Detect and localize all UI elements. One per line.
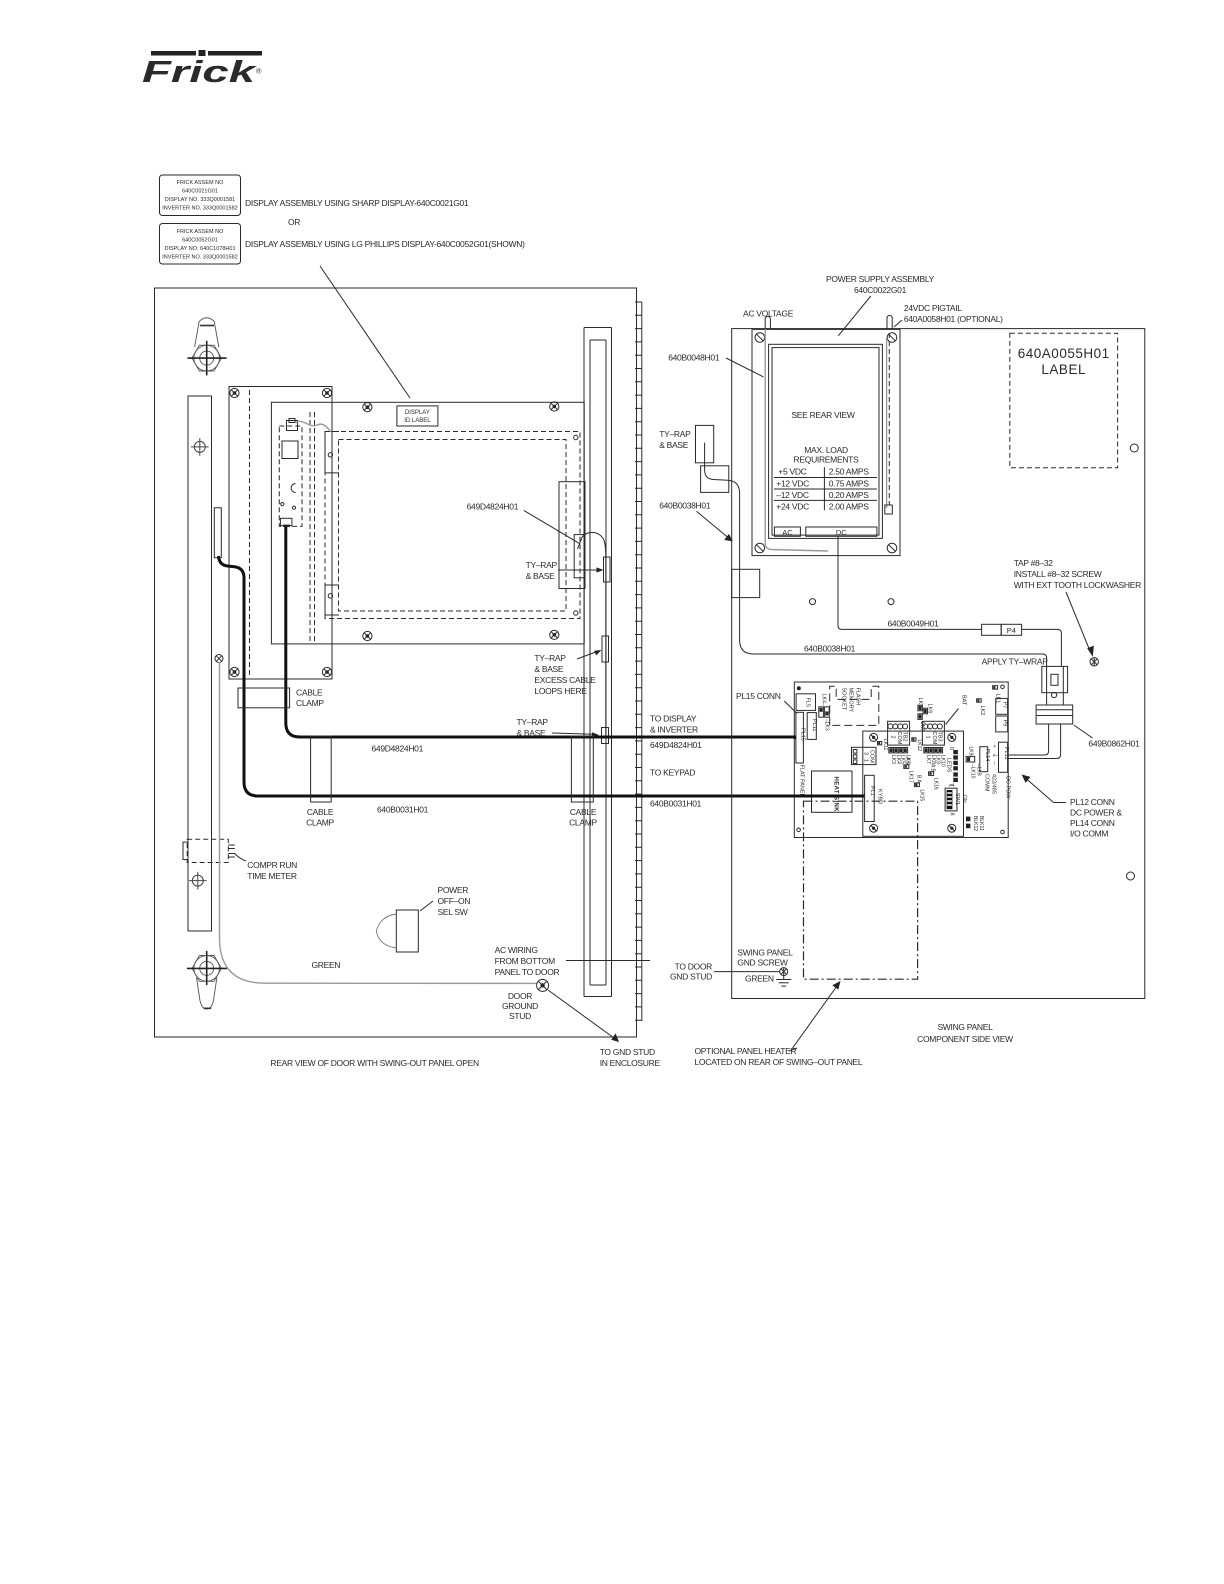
svg-text:COM: COM (931, 732, 937, 745)
hidden display edge dashed pair (309, 412, 311, 644)
svg-text:BLK11: BLK11 (978, 816, 984, 831)
svg-text:CLAMP: CLAMP (296, 698, 324, 708)
ty-rap base 1 on stiffener (604, 557, 611, 582)
svg-text:REAR VIEW OF DOOR WITH SWING-O: REAR VIEW OF DOOR WITH SWING-OUT PANEL O… (270, 1058, 479, 1068)
svg-text:2.50 AMPS: 2.50 AMPS (829, 467, 869, 477)
svg-text:ID LABEL: ID LABEL (404, 418, 431, 424)
stiffener bar (584, 328, 612, 997)
svg-text:+24 VDC: +24 VDC (776, 502, 809, 512)
svg-text:GREEN: GREEN (312, 960, 341, 970)
heat sink (812, 771, 853, 812)
svg-text:1: 1 (925, 736, 931, 739)
svg-text:PL12: PL12 (1003, 747, 1009, 760)
svg-text:P9: P9 (1002, 720, 1008, 727)
svg-text:LOCATED ON REAR OF SWING–OUT P: LOCATED ON REAR OF SWING–OUT PANEL (695, 1057, 863, 1067)
swing panel outline (732, 329, 1145, 999)
640B0038H01 wire through bases (705, 443, 1047, 667)
ty-rap base block lower (701, 466, 729, 493)
svg-text:FRICK ASSEM NO: FRICK ASSEM NO (177, 180, 224, 186)
tie base on plate edge (214, 508, 221, 558)
LED bank (946, 747, 958, 786)
svg-text:LK16: LK16 (933, 778, 939, 790)
svg-text:FROM BOTTOM: FROM BOTTOM (495, 956, 556, 966)
svg-text:SEL SW: SEL SW (438, 907, 468, 917)
jumper LK17 (904, 757, 914, 783)
display opening dashed outer (325, 432, 580, 619)
svg-text:GROUND: GROUND (502, 1001, 538, 1011)
jumper cluster LK5 LK6 LK7 (917, 698, 933, 732)
svg-text:TY–RAP: TY–RAP (534, 653, 566, 663)
svg-text:640C0052G01: 640C0052G01 (182, 238, 218, 244)
connector PL15 (796, 712, 804, 763)
svg-text:SWING PANEL: SWING PANEL (937, 1022, 993, 1032)
svg-text:MAX. LOAD: MAX. LOAD (804, 445, 848, 455)
leader to gnd stud in enclosure (548, 990, 614, 1038)
svg-text:LK4–: LK4– (821, 694, 827, 706)
svg-text:640A0058H01 (OPTIONAL): 640A0058H01 (OPTIONAL) (904, 314, 1003, 324)
display id label box (397, 406, 438, 426)
svg-text:INSTALL #8–32 SCREW: INSTALL #8–32 SCREW (1014, 569, 1102, 579)
connector FL5 (796, 694, 815, 711)
svg-text:INVERTER NO. 333Q0001582: INVERTER NO. 333Q0001582 (162, 206, 237, 212)
svg-text:640A0055H01: 640A0055H01 (1018, 346, 1110, 361)
svg-text:BLK12: BLK12 (972, 816, 978, 831)
svg-text:DC: DC (836, 528, 847, 537)
svg-text:COMM: COMM (984, 774, 990, 792)
SBC screw BR (948, 824, 956, 832)
POWER OFF-ON SEL SW (396, 910, 418, 952)
svg-text:TO GND STUD: TO GND STUD (600, 1047, 655, 1057)
Frick logo (142, 50, 262, 89)
svg-text:& BASE: & BASE (534, 664, 564, 674)
wire to swing panel gnd screw (714, 971, 780, 973)
hinge ladder strip (635, 302, 642, 1021)
svg-text:DISPLAY: DISPLAY (405, 410, 430, 416)
P4 connector (982, 624, 1002, 635)
jumper LK12 (912, 738, 916, 741)
PSU bracket screw TR (887, 333, 897, 343)
keypad mounting plate (229, 387, 332, 680)
svg-text:2.00 AMPS: 2.00 AMPS (829, 502, 869, 512)
PSU pigtail sleeve (gray) (886, 337, 888, 508)
display mount tab bottom-left (325, 585, 339, 615)
keypad plate hidden edge dashed (249, 390, 251, 676)
bracket crosshair bottom (189, 872, 207, 890)
plate screw BR (322, 667, 331, 676)
svg-text:PL12 CONN: PL12 CONN (1070, 797, 1115, 807)
display screw TR (550, 402, 559, 411)
svg-text:OR: OR (288, 217, 300, 227)
DIP switch SW1 (945, 784, 967, 816)
svg-text:FLASH: FLASH (855, 688, 861, 706)
swing panel gnd screw (780, 968, 788, 976)
wires from clamp to PL12 (1008, 724, 1048, 755)
svg-text:CABLE: CABLE (296, 688, 323, 698)
svg-text:TY–RAP: TY–RAP (517, 717, 549, 727)
svg-text:B A: B A (916, 775, 922, 783)
inverter bottom connector (280, 518, 292, 525)
svg-text:AC WIRING: AC WIRING (495, 945, 538, 955)
inverter top connector (287, 421, 298, 431)
jumper row LK3-LK6 (889, 748, 911, 765)
jumpers LK4 LK3 (819, 694, 830, 731)
svg-text:TO DISPLAY: TO DISPLAY (650, 714, 697, 724)
display cable connector block (559, 482, 585, 589)
ty-rap base 2 on stiffener (602, 636, 609, 662)
svg-text:Frick: Frick (142, 54, 258, 89)
svg-text:–12 VDC: –12 VDC (776, 490, 809, 500)
keypad cable overlay across board (794, 795, 864, 798)
svg-text:640C0022G01: 640C0022G01 (854, 285, 907, 295)
svg-text:649D4824H01: 649D4824H01 (650, 740, 702, 750)
svg-text:⏚: ⏚ (991, 753, 998, 759)
ty-rap base 3 on stiffener (602, 728, 609, 744)
display screw BR (550, 630, 559, 639)
svg-text:CLAMP: CLAMP (569, 818, 597, 828)
640A0055H01 LABEL dashed box (1010, 333, 1118, 468)
svg-text:640B0031H01: 640B0031H01 (377, 805, 429, 815)
connector P7 (996, 698, 1008, 714)
svg-text:LK12: LK12 (916, 740, 922, 752)
jumper LK16 (929, 764, 939, 790)
svg-text:+: + (991, 745, 997, 748)
DC terminal box (806, 527, 877, 536)
panel mounting hole right lower (1127, 872, 1135, 880)
svg-text:POWER: POWER (438, 885, 469, 895)
svg-text:PL15 CONN: PL15 CONN (736, 691, 781, 701)
svg-text:640B0038H01: 640B0038H01 (659, 501, 711, 511)
svg-text:& BASE: & BASE (526, 571, 556, 581)
board outline (794, 682, 1008, 838)
svg-text:CLAMP: CLAMP (306, 818, 334, 828)
connector PL11 (807, 713, 816, 740)
svg-text:COM: COM (896, 732, 902, 745)
svg-text:COMPONENT SIDE VIEW: COMPONENT SIDE VIEW (917, 1034, 1013, 1044)
svg-text:A D: A D (905, 757, 911, 765)
PSU internal AC voltage wire (gray) (765, 329, 828, 551)
wires from ty-wrap block to clamp (1046, 693, 1048, 705)
svg-text:FLAT PANEL: FLAT PANEL (798, 765, 804, 797)
PSU bracket screw BR (887, 543, 897, 553)
svg-text:–LK8: –LK8 (976, 764, 982, 776)
svg-text:OPTIONAL PANEL HEATER: OPTIONAL PANEL HEATER (695, 1046, 797, 1056)
svg-text:1: 1 (948, 784, 954, 787)
svg-text:1: 1 (863, 759, 869, 762)
ty-wrap block (1042, 666, 1068, 697)
inverter board dashed outline (279, 426, 302, 526)
svg-text:2: 2 (890, 736, 896, 739)
panel mounting hole right upper (1130, 444, 1138, 452)
COMPR RUN TIME METER (187, 839, 228, 862)
arrow to ty-rap base 3 (552, 733, 594, 734)
svg-text:+12 VDC: +12 VDC (776, 478, 809, 488)
svg-text:+5 VDC: +5 VDC (778, 467, 806, 477)
svg-text:PL14: PL14 (984, 749, 990, 762)
svg-text:WITH EXT TOOTH LOCKWASHER: WITH EXT TOOTH LOCKWASHER (1014, 580, 1141, 590)
svg-text:I/O COMM: I/O COMM (1070, 829, 1108, 839)
svg-text:640B0031H01: 640B0031H01 (650, 799, 702, 809)
svg-text:SOCKET: SOCKET (841, 688, 847, 711)
cable from connector to stiffener (578, 532, 606, 558)
svg-text:640B0048H01: 640B0048H01 (668, 353, 720, 363)
tie block on panel edge (732, 569, 760, 597)
board corner marks (797, 686, 801, 690)
PSU pigtail dashed wire (888, 333, 890, 505)
pigtail end terminal (885, 505, 893, 514)
plate screw BL (230, 667, 239, 676)
svg-text:MEMORY: MEMORY (848, 688, 854, 713)
flash memory socket (830, 686, 879, 725)
spec label box 2 (LG Phillips display) (160, 224, 241, 265)
inverter inner component (282, 441, 298, 459)
svg-text:DOOR: DOOR (508, 991, 532, 1001)
svg-text:SEE REAR VIEW: SEE REAR VIEW (791, 410, 854, 420)
svg-text:AC VOLTAGE: AC VOLTAGE (743, 309, 794, 319)
svg-text:640C0021G01: 640C0021G01 (182, 189, 218, 195)
svg-text:TO KEYPAD: TO KEYPAD (650, 768, 695, 778)
left bracket bar (188, 396, 212, 931)
svg-text:GND STUD: GND STUD (670, 972, 712, 982)
connector PL14 (980, 747, 988, 772)
display opening dashed inner (339, 440, 567, 612)
svg-text:GND SCREW: GND SCREW (737, 958, 787, 968)
cable clamp 3 (right, vertical) (571, 736, 593, 802)
spec label box 1 (sharp display) (160, 175, 241, 216)
inner SBC board (863, 731, 964, 836)
door ground stud (537, 979, 549, 991)
svg-text:DC POWER &: DC POWER & (1070, 808, 1122, 818)
svg-text:PL1: PL1 (869, 786, 875, 796)
svg-text:LK7: LK7 (919, 722, 925, 732)
tap screw (1090, 658, 1098, 666)
svg-text:A B: A B (930, 764, 936, 772)
leader 649D4824H01 to connector (524, 510, 580, 543)
svg-text:COMPR RUN: COMPR RUN (247, 860, 297, 870)
svg-text:TAP #8–32: TAP #8–32 (1014, 558, 1054, 568)
svg-text:0.20 AMPS: 0.20 AMPS (829, 490, 869, 500)
svg-text:APPLY TY–WRAP: APPLY TY–WRAP (982, 657, 1049, 667)
svg-text:POWER SUPPLY ASSEMBLY: POWER SUPPLY ASSEMBLY (826, 274, 935, 284)
display screw TL (363, 403, 372, 412)
PSU bracket screw BL (755, 543, 765, 553)
inverter cable squiggle (295, 421, 331, 432)
PSU bracket screw TL (755, 333, 765, 343)
svg-text:GREEN: GREEN (745, 974, 774, 984)
leader to ty-rap base 2 (577, 652, 597, 660)
connector TB3 COM 1 (922, 721, 944, 745)
leader from caption to display assembly (320, 266, 410, 398)
DC wire 640B0049H01 (838, 537, 982, 630)
svg-text:REQUIREMENTS: REQUIREMENTS (794, 455, 860, 465)
arrow to tap screw (1066, 592, 1090, 651)
svg-text:IN ENCLOSURE: IN ENCLOSURE (600, 1058, 661, 1068)
cable clamp 649B0862H01 (1036, 705, 1073, 724)
plate ground screw (215, 655, 223, 663)
cable clamp 1 (below plate) (238, 688, 290, 708)
svg-text:& INVERTER: & INVERTER (650, 725, 698, 735)
svg-text:8: 8 (949, 813, 955, 816)
svg-text:–LK10: –LK10 (970, 764, 976, 779)
svg-text:P4: P4 (1007, 626, 1016, 635)
SBC screw BL (870, 824, 878, 832)
svg-text:FL5: FL5 (805, 698, 811, 707)
heater leader arrow (792, 985, 838, 1049)
connector P9 (996, 716, 1008, 732)
svg-text:PL15: PL15 (799, 728, 805, 741)
svg-text:LOOPS HERE: LOOPS HERE (534, 686, 587, 696)
display cable overlay to PL15 (794, 736, 796, 739)
connector TB2 COM 2 (888, 721, 910, 745)
GREEN ground wire (220, 662, 537, 983)
SBC screw TL (870, 733, 878, 741)
svg-text:DC POW: DC POW (1005, 776, 1011, 799)
jumper LK2 (977, 699, 985, 715)
svg-text:INVERTER NO. 333Q0001582: INVERTER NO. 333Q0001582 (162, 255, 237, 261)
connector PL1 KYBD (865, 775, 883, 821)
BLK12 BLK11 (966, 816, 984, 831)
svg-text:®: ® (256, 67, 262, 76)
svg-text:LK11: LK11 (882, 739, 888, 751)
arrow to ty-rap base 1 (558, 569, 599, 571)
bracket crosshair top (191, 438, 209, 456)
svg-text:–LK3: –LK3 (824, 719, 830, 731)
svg-text:SW1: SW1 (954, 793, 960, 805)
svg-text:640B0049H01: 640B0049H01 (888, 619, 940, 629)
svg-text:649B0862H01: 649B0862H01 (1088, 739, 1140, 749)
svg-text:PL14 CONN: PL14 CONN (1070, 818, 1115, 828)
svg-text:OFF–ON: OFF–ON (438, 896, 471, 906)
bottom door latch (192, 956, 221, 1010)
ground symbol (776, 976, 791, 987)
cable run down stiffener (605, 558, 607, 738)
svg-text:BAT: BAT (961, 695, 967, 706)
svg-text:LK17: LK17 (908, 771, 914, 783)
svg-text:640B0038H01: 640B0038H01 (804, 644, 856, 654)
display screw BL (363, 631, 372, 640)
jumper LK1 (993, 686, 1001, 704)
connector COM 3 (852, 747, 877, 764)
PSU box (769, 344, 883, 538)
svg-text:422/485: 422/485 (991, 774, 997, 794)
ty-rap base block upper (696, 425, 714, 462)
jumper LK11 (878, 742, 882, 745)
panel mounting holes below PSU (810, 599, 816, 605)
svg-text:EXCESS CABLE: EXCESS CABLE (534, 675, 596, 685)
plate screw TL (230, 388, 239, 397)
display mount holes (328, 453, 332, 457)
svg-text:ON: ON (961, 795, 967, 803)
svg-text:TY–RAP: TY–RAP (659, 429, 691, 439)
svg-text:649D4824H01: 649D4824H01 (372, 744, 424, 754)
svg-text:3: 3 (863, 752, 869, 755)
top door latch (192, 318, 221, 371)
inverter small holes (281, 503, 284, 506)
jumpers LK9-LK10 LK8 (966, 747, 981, 779)
svg-text:DISPLAY NO. 640C1078H01: DISPLAY NO. 640C1078H01 (164, 246, 235, 252)
AC terminal box (774, 527, 800, 536)
keypad cable (thick) (219, 556, 865, 796)
svg-text:& BASE: & BASE (659, 440, 689, 450)
svg-text:LK6: LK6 (927, 704, 933, 714)
panel heater dash-dot outline (804, 801, 918, 979)
svg-text:CABLE: CABLE (570, 807, 597, 817)
connector PL12 (999, 742, 1008, 772)
svg-text:SWING PANEL: SWING PANEL (737, 948, 793, 958)
svg-text:DISPLAY ASSEMBLY USING LG PHIL: DISPLAY ASSEMBLY USING LG PHILLIPS DISPL… (245, 239, 525, 249)
svg-text:TY–RAP: TY–RAP (526, 560, 558, 570)
svg-text:TO DOOR: TO DOOR (675, 962, 713, 972)
svg-text:STUD: STUD (509, 1011, 531, 1021)
svg-text:LK10: LK10 (939, 755, 945, 767)
svg-text:FRICK ASSEM NO: FRICK ASSEM NO (177, 229, 224, 235)
svg-text:0.75 AMPS: 0.75 AMPS (829, 478, 869, 488)
plate screw TR (322, 388, 331, 397)
svg-text:LK15: LK15 (919, 790, 925, 802)
24VDC pigtail wire loop (887, 315, 892, 329)
svg-text:LABEL: LABEL (1041, 362, 1086, 377)
svg-text:LK2: LK2 (979, 706, 985, 716)
svg-text:CABLE: CABLE (307, 807, 334, 817)
svg-text:24VDC PIGTAIL: 24VDC PIGTAIL (904, 303, 962, 313)
svg-text:P7: P7 (1002, 702, 1008, 709)
jumper row LK7-LK10 (924, 748, 946, 767)
inverter circle (291, 484, 296, 493)
PSU mounting bracket (752, 329, 900, 555)
display assembly plate (271, 402, 584, 644)
svg-text:649D4824H01: 649D4824H01 (467, 501, 519, 511)
svg-text:HEAT SINK: HEAT SINK (833, 777, 839, 813)
svg-text:TIME METER: TIME METER (247, 871, 297, 881)
svg-text:DISPLAY ASSEMBLY USING SHARP D: DISPLAY ASSEMBLY USING SHARP DISPLAY-640… (245, 198, 469, 208)
svg-text:AC: AC (782, 528, 793, 537)
AC voltage wire loop (765, 316, 770, 329)
SBC screw TR (948, 733, 956, 741)
display mount tab top-left (325, 432, 339, 473)
inverter cable (thick) down from inverter (286, 526, 796, 737)
door panel outline (155, 288, 637, 1037)
svg-text:DISPLAY NO. 333Q0001581: DISPLAY NO. 333Q0001581 (165, 197, 235, 203)
svg-text:PL11: PL11 (811, 719, 817, 731)
jumper LK15 (914, 775, 924, 801)
cable clamp 2 (left, vertical) (311, 736, 332, 802)
svg-text:0: 0 (948, 747, 954, 750)
svg-text:PANEL TO DOOR: PANEL TO DOOR (495, 967, 560, 977)
svg-text:LEDS: LEDS (946, 758, 952, 773)
